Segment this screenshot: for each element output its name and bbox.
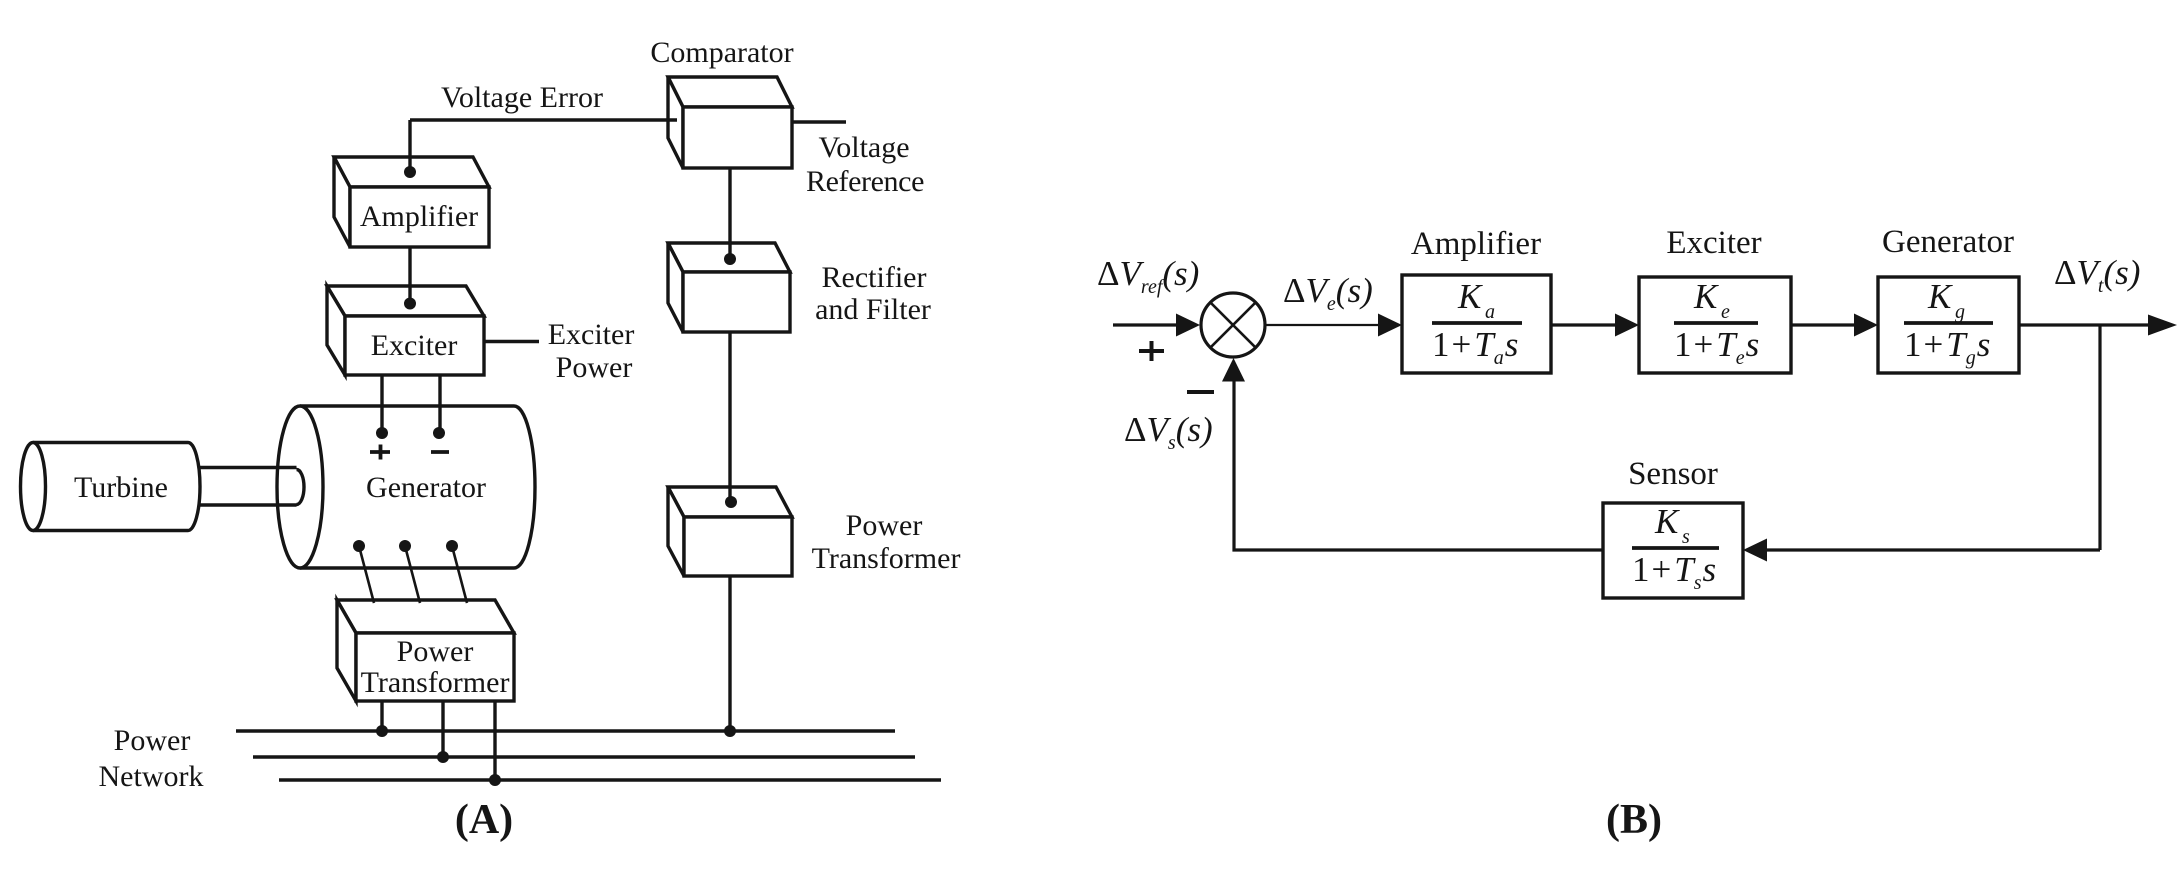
svg-text:Power: Power bbox=[397, 635, 474, 668]
svg-text:1+Tas: 1+Tas bbox=[1432, 325, 1518, 369]
svg-text:s: s bbox=[1682, 526, 1690, 548]
svg-text:Exciter: Exciter bbox=[1666, 225, 1761, 261]
svg-text:(B): (B) bbox=[1606, 797, 1662, 843]
svg-text:Exciter: Exciter bbox=[371, 329, 458, 362]
svg-text:e: e bbox=[1721, 301, 1730, 323]
svg-text:Generator: Generator bbox=[1882, 224, 2014, 260]
svg-text:Comparator: Comparator bbox=[650, 36, 793, 69]
svg-text:Rectifier: Rectifier bbox=[822, 261, 927, 294]
svg-text:Exciter: Exciter bbox=[548, 318, 635, 351]
svg-text:Voltage: Voltage bbox=[818, 131, 909, 164]
svg-text:ΔVt(s): ΔVt(s) bbox=[2054, 253, 2140, 297]
svg-text:Generator: Generator bbox=[366, 471, 486, 504]
svg-text:1+Tss: 1+Tss bbox=[1632, 550, 1716, 594]
svg-text:K: K bbox=[1457, 277, 1483, 316]
svg-text:K: K bbox=[1693, 277, 1719, 316]
svg-text:Power: Power bbox=[556, 351, 633, 384]
svg-text:1+Tgs: 1+Tgs bbox=[1904, 325, 1990, 369]
svg-text:a: a bbox=[1485, 301, 1495, 323]
svg-text:Power: Power bbox=[114, 724, 191, 757]
svg-text:Amplifier: Amplifier bbox=[1411, 226, 1541, 262]
svg-text:K: K bbox=[1927, 277, 1953, 316]
svg-text:Reference: Reference bbox=[806, 165, 924, 198]
svg-text:1+Tes: 1+Tes bbox=[1674, 325, 1759, 369]
svg-text:Voltage Error: Voltage Error bbox=[441, 81, 603, 114]
svg-text:Transformer: Transformer bbox=[361, 666, 510, 699]
svg-text:g: g bbox=[1955, 301, 1965, 323]
svg-text:Amplifier: Amplifier bbox=[360, 200, 478, 233]
svg-text:Network: Network bbox=[99, 760, 204, 793]
svg-text:K: K bbox=[1654, 502, 1680, 541]
svg-text:Sensor: Sensor bbox=[1628, 456, 1718, 492]
svg-text:(A): (A) bbox=[455, 797, 513, 843]
svg-text:Turbine: Turbine bbox=[74, 471, 168, 504]
svg-text:Transformer: Transformer bbox=[812, 542, 961, 575]
svg-text:and Filter: and Filter bbox=[815, 293, 931, 326]
svg-text:Power: Power bbox=[846, 509, 923, 542]
